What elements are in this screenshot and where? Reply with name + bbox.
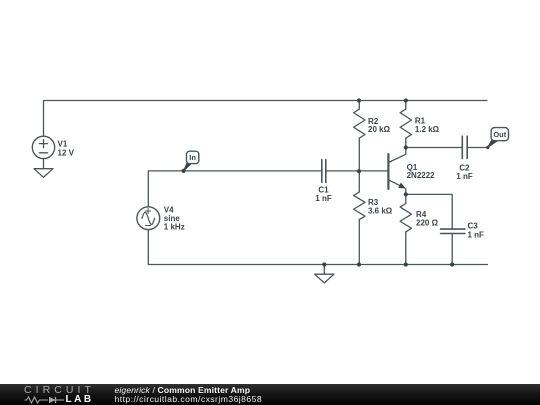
node flag Out <box>486 128 508 149</box>
svg-text:2N2222: 2N2222 <box>407 171 436 180</box>
junction bottom rail at C3 <box>450 262 454 266</box>
svg-text:3.6 kΩ: 3.6 kΩ <box>368 206 393 215</box>
logo LAB text <box>66 395 94 405</box>
svg-text:1 nF: 1 nF <box>315 194 332 203</box>
svg-text:20 kΩ: 20 kΩ <box>368 125 391 134</box>
wire emitter node to C3 branch <box>406 194 452 229</box>
svg-text:In: In <box>189 153 196 162</box>
svg-text:V1: V1 <box>58 140 68 149</box>
wire bottom rail <box>148 230 487 265</box>
capacitor C2 <box>462 136 467 158</box>
logo CIRCUIT text <box>24 385 95 395</box>
svg-text:C3: C3 <box>468 222 479 231</box>
wire C2 to Out <box>467 147 488 149</box>
wire top supply rail <box>44 101 488 137</box>
svg-text:Out: Out <box>493 130 506 139</box>
resistor R1 <box>400 101 411 148</box>
svg-text:1 nF: 1 nF <box>468 230 485 239</box>
wire base net horizontal <box>148 171 321 207</box>
footer url line <box>115 395 263 404</box>
voltage source V1 <box>32 136 54 169</box>
junction top rail at R2 <box>357 98 361 102</box>
capacitor C1 <box>322 160 326 183</box>
junction emitter node <box>404 192 408 196</box>
ground main <box>315 265 334 283</box>
junction base net at R2/R3 <box>357 169 361 173</box>
junction collector node <box>404 145 408 149</box>
footer title line <box>115 386 251 395</box>
resistor R3 <box>354 171 365 264</box>
voltage source V4 <box>137 207 160 230</box>
resistor R4 <box>400 194 411 264</box>
wire C1 right to base <box>326 170 389 172</box>
svg-text:1 kHz: 1 kHz <box>164 222 185 231</box>
footer bar <box>0 384 540 405</box>
svg-text:12 V: 12 V <box>58 149 75 158</box>
logo resistor-diode symbol <box>24 395 68 405</box>
junction top rail at R1 <box>404 98 408 102</box>
capacitor C3 <box>441 229 465 233</box>
junction bottom rail at R4 <box>404 262 408 266</box>
svg-text:V4: V4 <box>164 205 174 214</box>
ground at V1 <box>34 169 53 178</box>
junction bottom rail at ground <box>322 262 326 266</box>
svg-text:220 Ω: 220 Ω <box>416 218 439 227</box>
wire C3 bottom lead <box>451 234 453 265</box>
wire collector node to C2 <box>406 147 463 149</box>
transistor Q1 <box>388 148 405 195</box>
resistor R2 <box>354 101 365 172</box>
svg-text:1.2 kΩ: 1.2 kΩ <box>415 125 440 134</box>
junction bottom rail at R3 <box>357 262 361 266</box>
node flag In <box>182 151 199 173</box>
svg-text:1 nF: 1 nF <box>456 172 473 181</box>
